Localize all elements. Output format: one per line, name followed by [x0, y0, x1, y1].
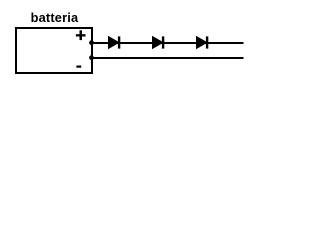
- diode D2: [153, 36, 164, 48]
- minus terminal label: [76, 66, 81, 68]
- node positive junction: [89, 40, 94, 45]
- node negative junction: [89, 55, 94, 60]
- battery B1: [16, 28, 92, 73]
- diode D1: [109, 36, 120, 48]
- wire negative rail: [92, 57, 244, 59]
- plus terminal label: [76, 30, 86, 40]
- svg-text:batteria: batteria: [31, 10, 79, 25]
- diode D3: [197, 36, 208, 48]
- wire positive rail: [92, 42, 244, 44]
